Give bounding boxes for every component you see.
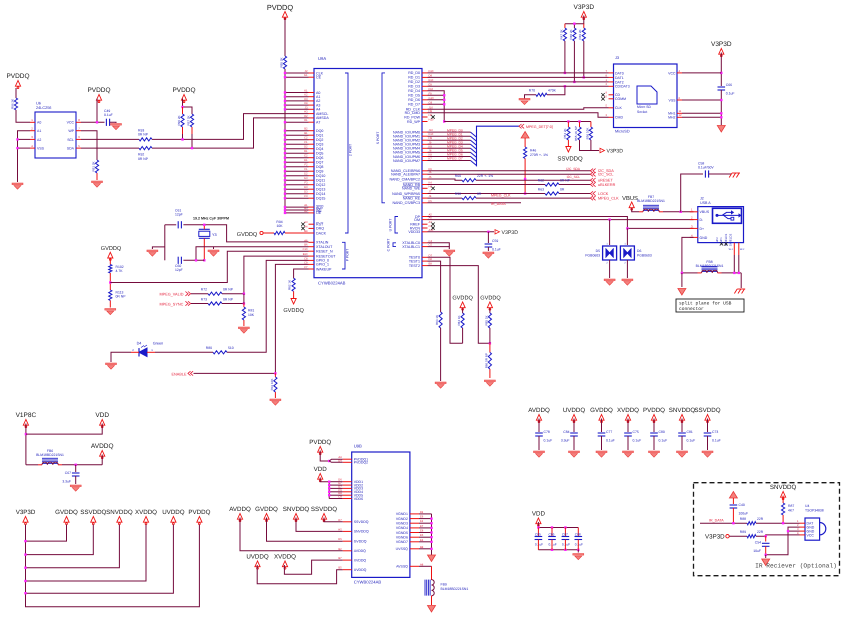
svg-text:UVSSQ: UVSSQ [396,547,409,551]
net label IR_DATA [491,202,506,206]
svg-text:V3P3D: V3P3D [607,149,624,155]
wire XTALBLC1 [428,247,450,249]
wire VDD rail top [538,522,578,528]
U9A port bracket 2 PORT [345,73,353,233]
svg-text:PVDDQ: PVDDQ [172,87,195,94]
svg-text:PVDDQ2: PVDDQ2 [354,461,368,465]
wire [729,535,747,537]
resistor R88 22R [740,517,764,525]
svg-text:RD_D6: RD_D6 [408,98,420,102]
svg-text:22R: 22R [757,517,764,521]
wire [18,138,31,140]
wire UVDDQ [257,565,343,584]
svg-text:SSVDDQ: SSVDDQ [311,506,337,513]
svg-text:I2C_SCL: I2C_SCL [598,173,613,177]
svg-text:D6: D6 [637,249,641,253]
wire [601,419,603,433]
power flag SSVDDQ [80,509,106,525]
wire [577,528,579,537]
capacitor C77 0.1uF [598,430,615,443]
svg-text:R49 2K: R49 2K [578,29,582,39]
svg-text:SNVDDQ: SNVDDQ [106,509,133,516]
svg-text:U6: U6 [36,102,41,106]
svg-text:RD_D1: RD_D1 [408,76,420,80]
TVS diode D6 PGB0603 [620,243,651,265]
junction [787,530,789,532]
wire [590,122,592,128]
ground [483,252,494,258]
wire RD_D1 to DAT1 [428,76,561,78]
svg-text:100uF: 100uF [739,512,749,516]
junction [732,522,784,524]
wire TEST1 [428,261,441,312]
svg-text:DM: DM [414,218,420,222]
svg-text:split plane for USB: split plane for USB [679,301,732,307]
wire [547,86,565,95]
wire [525,95,537,99]
svg-text:R86 0R NP: R86 0R NP [484,353,488,368]
svg-text:AVDDQ: AVDDQ [354,549,366,553]
svg-text:FB9: FB9 [441,583,447,587]
resistor R46 270R [524,147,527,159]
junction [181,106,183,108]
svg-text:WAKEUP: WAKEUP [316,267,332,271]
svg-text:V3P3D: V3P3D [16,509,36,516]
wire SSVDDQ [324,518,343,522]
wire tree branch PVDDQ [26,525,200,607]
svg-text:DQ8: DQ8 [316,165,323,169]
wire I2C_SDA [428,170,592,172]
wire pull-up DAT0 [564,41,566,73]
wire [765,555,767,558]
svg-text:DACK: DACK [316,231,327,235]
junction [524,178,526,195]
wire [551,540,553,550]
wire ENABLE to GPIO_1 [194,264,309,373]
power flag GVDDQ [460,302,465,310]
svg-text:DQ15: DQ15 [316,197,325,201]
wire [577,550,579,553]
svg-text:0R NP: 0R NP [138,133,149,137]
wire XVDDQ [284,560,342,574]
svg-text:C86: C86 [549,533,555,537]
junction [537,526,579,551]
net label I2C_SDA inner [566,167,581,171]
svg-text:R88: R88 [740,517,746,521]
wire RD_D3 to DAT3 [428,85,561,87]
ref R87 [788,504,794,508]
svg-text:Y3: Y3 [212,233,217,237]
pull-up rail wire from R95 [285,69,309,213]
wire AVSSQ [419,565,432,567]
wire [109,273,111,290]
no-connect x RD_POW [431,115,434,118]
svg-text:0.1uF: 0.1uF [687,439,696,443]
svg-text:A0: A0 [37,121,41,125]
wire power tree trunk V3P3D [25,525,27,594]
resistor R91 2K [91,160,98,180]
U9B left pins [338,456,369,572]
offpage connector I2C_SCL [590,172,613,177]
ref C87 [562,533,568,537]
svg-text:RD_D0: RD_D0 [408,71,420,75]
svg-text:DQ0: DQ0 [316,129,323,133]
svg-text:4K7: 4K7 [788,509,794,513]
resistor R73 0R NP [201,297,234,305]
power flag V3P3D [16,509,36,525]
power tap V3P3D right arrow [495,230,500,234]
svg-text:0.1uF: 0.1uF [633,439,642,443]
svg-text:0.1uF: 0.1uF [544,439,553,443]
junction [274,372,276,374]
wire VGND bus [419,514,432,555]
power flag AVDDQ [91,443,114,459]
junction dots on pull-up rail [284,72,286,214]
svg-text:R54 2K: R54 2K [563,128,567,138]
wire [440,328,442,381]
svg-text:GND: GND [700,236,708,240]
svg-text:GPIO_1: GPIO_1 [316,263,329,267]
svg-text:C84: C84 [563,430,569,434]
wire [577,540,579,550]
svg-text:C40: C40 [739,503,745,507]
svg-text:V3P3D: V3P3D [502,230,519,236]
wire crystal top node [165,224,176,226]
power flag XVDDQ [135,509,157,525]
wire DM to USB D- [428,219,694,221]
svg-text:UVDDQ: UVDDQ [246,554,269,561]
note IR Reciever (Optional) [755,563,837,570]
resistor R56 10K [585,127,592,140]
svg-text:12: 12 [679,114,682,117]
ferrite bead FB8 BLM18BD221SN1 [696,260,724,273]
wire MH1 [682,112,721,114]
net label GVDDQ [101,246,122,252]
wire [284,18,286,56]
ref C86 [549,533,555,537]
wire GND2 [766,527,800,555]
capacitor C88 0.1uF [575,537,583,540]
svg-text:MPEG_VALID: MPEG_VALID [160,293,184,297]
svg-text:CD/DAT3: CD/DAT3 [615,85,630,89]
ground [105,309,116,315]
value 0R NP [116,295,127,299]
wire [191,293,208,295]
capacitor C66 0.1uF [718,83,735,96]
resistor R83 1K [435,312,442,328]
power flag PVDDQ [188,509,210,525]
svg-text:XTALOUT: XTALOUT [316,245,333,249]
power flag SNVDDQ [283,506,310,522]
svg-text:UVDDQ: UVDDQ [563,407,586,414]
svg-text:3.3uF: 3.3uF [62,480,71,484]
svg-text:R62: R62 [538,178,544,182]
wire [720,53,722,87]
wire RD_D0 to DAT0 [428,72,561,74]
value 0.1uF [549,543,557,547]
wire [25,424,27,465]
wire [489,328,491,343]
net label V3P3D [502,230,519,236]
ground [604,279,615,285]
resistor R86 0R NP [484,343,491,378]
svg-text:AVDDQ: AVDDQ [229,506,251,513]
svg-text:R97 2K: R97 2K [186,115,190,125]
wire [428,197,463,199]
svg-text:DQ1: DQ1 [316,134,323,138]
resistor R102 4.7K [109,265,112,274]
svg-text:SNVDDQ: SNVDDQ [669,407,696,414]
svg-text:MPEG_CLK: MPEG_CLK [491,194,511,198]
wire WAKEUP [294,269,309,278]
ground [111,124,122,130]
net label V3P3D [705,534,725,541]
svg-text:AVDDQ: AVDDQ [91,443,114,450]
wire [537,540,539,550]
ground [270,399,281,405]
svg-text:P PORT: P PORT [346,249,350,262]
wire [428,184,546,186]
wire [538,419,540,433]
net label MPEG_VALID [160,293,184,297]
wire XTALOUT riser [196,247,309,261]
wire [681,419,683,433]
wire TEST0 [428,257,463,343]
value 10K [276,224,283,228]
svg-text:0.1uF: 0.1uF [726,92,735,96]
svg-text:V3P3D: V3P3D [573,4,594,11]
wire [182,134,184,139]
svg-text:UVDDQ: UVDDQ [162,509,185,516]
capacitor C75 0.1uF [624,430,641,443]
svg-text:BLM18BD221SN1: BLM18BD221SN1 [441,587,469,591]
ref R102 [116,265,124,269]
wire SNVDDQ [296,518,343,532]
no-connect x CD COMM [601,93,604,100]
junction [765,554,767,556]
junction [487,231,489,233]
svg-text:GVDDQ: GVDDQ [55,509,78,516]
svg-text:C59: C59 [492,239,498,243]
svg-text:J3: J3 [615,56,619,60]
svg-text:NAND_IO/UPM7: NAND_IO/UPM7 [393,159,420,163]
ground [12,183,23,189]
wire VCC [81,121,105,123]
wire SDA to U9A AMSDA [152,118,309,148]
svg-text:IR_DATA: IR_DATA [491,202,506,206]
svg-text:470K: 470K [548,89,557,93]
svg-text:RESET_N: RESET_N [316,250,333,254]
resistor R93 0R NP [138,128,152,141]
svg-text:SNVDDQ: SNVDDQ [354,530,369,534]
svg-text:DQ2: DQ2 [316,138,323,142]
svg-text:VDD33: VDD33 [408,230,420,234]
svg-text:VGND1: VGND1 [396,512,408,516]
net label I2C_SCL inner [567,175,581,179]
svg-text:XVDDQ: XVDDQ [354,558,367,562]
wire RD_CMD [428,113,609,118]
wire pull-up DAT2 [573,41,575,82]
svg-text:0R NP: 0R NP [223,297,234,301]
wire VSS [682,99,721,101]
wire VCC [682,72,721,74]
resistor R62 0R NP [538,178,571,186]
svg-text:GVDDQ: GVDDQ [590,407,613,414]
wire [626,260,628,278]
svg-text:R85 1K: R85 1K [484,315,488,325]
wire [573,436,575,450]
offpage connector uBLKERR [590,182,615,187]
wire [110,121,116,124]
svg-text:R56 10K: R56 10K [585,128,589,140]
svg-text:RD_D5: RD_D5 [408,94,420,98]
resistor R97 2K [186,114,193,134]
svg-text:DAT1: DAT1 [615,76,624,80]
ground [147,250,158,256]
wire [573,419,575,433]
wire [320,478,329,482]
svg-text:0.1uF: 0.1uF [575,543,583,547]
clock note [193,216,229,220]
svg-text:0.1uF: 0.1uF [659,439,668,443]
resistor R81 10K [242,304,245,327]
wire [487,247,489,251]
svg-text:DQ13: DQ13 [316,188,325,192]
svg-text:R48 2K: R48 2K [569,29,573,39]
resistor R41 10K [270,373,277,398]
svg-text:VDD6: VDD6 [354,497,363,501]
no-connect x NAND_WE [431,187,434,190]
ref R94 [276,220,282,224]
net label GVDDQ [283,308,304,314]
power flag AVDDQ [229,506,251,522]
svg-text:W-2: W-2 [740,248,745,251]
svg-text:PVDDQ: PVDDQ [643,407,665,414]
ref R113 [116,291,124,295]
power flag PVDDQ [282,12,287,20]
wire [155,351,213,353]
junction [443,94,445,123]
ferrite bead FB6 BLM18BD221SN1 [36,449,64,465]
svg-text:R47 2K: R47 2K [559,29,563,39]
wire [285,232,309,234]
wire pull-up DAT1 [583,41,585,77]
capacitor C61 12pF [175,209,183,229]
wire [567,122,569,128]
ground [623,451,634,457]
svg-text:12pF: 12pF [175,213,183,217]
power tap V3P3D arrow [726,535,729,538]
capacitor C73 0.1uF [704,430,721,443]
wire MH2 [682,116,721,118]
junction tree [24,540,26,595]
wire IR_DATA [700,522,747,524]
wire [707,436,709,450]
value 0.1uF [575,543,583,547]
svg-text:0.1uF: 0.1uF [562,543,570,547]
ref C88 [575,533,581,537]
capacitor C67 3.3uF [62,471,79,484]
ground [444,250,455,256]
junction [243,293,245,305]
svg-text:0R NP: 0R NP [560,178,571,182]
svg-text:A2: A2 [37,138,41,142]
svg-text:10uF: 10uF [753,549,761,553]
svg-text:J2: J2 [700,197,704,201]
svg-text:VGND3: VGND3 [396,522,408,526]
svg-text:OE: OE [316,211,322,215]
svg-text:NAND_WE: NAND_WE [402,187,421,191]
chassis ground [734,289,745,294]
wire to GPIO_0 [227,260,309,352]
wire [109,301,111,308]
power flag VDD [95,412,109,428]
wire [487,232,489,243]
svg-text:connector: connector [679,306,704,312]
wire SCL [81,138,139,140]
svg-text:VBUS: VBUS [622,195,638,202]
svg-text:GVDDQ: GVDDQ [354,540,367,544]
U9A port bracket U PORT [389,217,399,234]
svg-text:MPEG_D7: MPEG_D7 [447,157,463,161]
wire [626,228,628,245]
svg-text:VCC: VCC [67,121,75,125]
resistor R70 470K [529,89,557,97]
svg-text:0.1uF: 0.1uF [549,543,557,547]
svg-text:BLM18BD221SN1: BLM18BD221SN1 [36,453,64,457]
svg-text:XVDDQ: XVDDQ [617,407,639,414]
U9A left pins [303,70,337,271]
capacitor C81 0.1uF [678,430,695,443]
svg-text:12pF: 12pF [175,268,183,272]
net label VBUS [622,195,638,202]
junction [203,224,205,262]
net label MPEG_SYNC [160,303,184,307]
junction [720,72,722,74]
LED D4 [131,345,155,357]
resistor R87 4K7 [782,503,785,515]
wire XTALBLC0 [428,243,450,247]
resistor R47 2K [559,24,566,41]
power flag SNVDDQ [770,484,797,500]
wire SDA [81,147,139,149]
capacitor C59 0.1uF [485,239,501,252]
svg-text:C78: C78 [544,430,550,434]
junction [765,535,767,537]
wires NAND_IO to bus [428,132,471,160]
ferrite bead FB9 BLM18BD221SN1 [425,580,468,596]
wire RD_WP net [444,121,591,123]
capacitor C87 0.1uF [562,537,570,540]
svg-text:U PORT: U PORT [389,219,393,232]
capacitor C58 0.1uF/50V [698,162,714,178]
svg-text:C75: C75 [633,430,639,434]
wire [16,110,30,122]
svg-text:SSVDDQ: SSVDDQ [80,509,106,516]
wire [682,272,698,274]
power flag VBUS arrow [629,202,634,210]
svg-text:PGB0603: PGB0603 [585,254,600,258]
power arrow down SSVDDQ [566,147,571,153]
power flag V1P8C [16,412,37,428]
wire VCC [756,535,800,536]
net label GVDDQ [452,296,473,302]
resistor R94 10K [274,231,285,234]
svg-text:H10: H10 [429,119,434,122]
net label PVDDQ [267,3,294,12]
junction [564,72,585,83]
svg-text:A1: A1 [37,129,41,133]
